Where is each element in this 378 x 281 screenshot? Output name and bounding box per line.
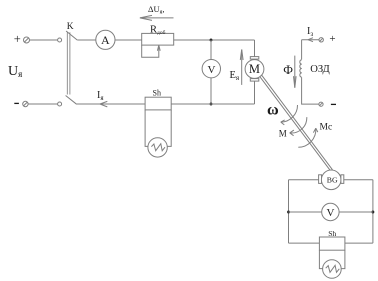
shaft motor to tachogenerator [260,75,333,171]
terminal - (armature supply negative) [23,101,28,106]
label - field [331,103,336,105]
svg-text:ОЗД: ОЗД [310,64,330,75]
millivoltmeter2 zigzag symbol [326,265,340,272]
wire rheostat to node A1 and motor [174,39,255,41]
wire - terminal to switch contact [28,103,57,105]
wire top rail down to motor brush [254,40,256,57]
wire field down to coil [301,40,303,60]
motor M top brush [250,57,258,60]
arc arrow M direction [290,117,307,136]
arc arrow ω direction [281,105,298,125]
wire shunt to M bottom [171,103,254,105]
rheostat wiper loop wire [142,45,159,57]
wire field top with I_з arrowhead [302,38,319,42]
voltmeter V tachometer [322,203,339,220]
node right V2 junction [371,211,374,214]
rheostat Rдоб body [142,33,174,45]
switch K bottom contact [58,102,62,106]
svg-text:V: V [327,207,335,219]
svg-text:+: + [329,33,335,45]
node bottom V junction [210,103,213,106]
shunt2 potential leads rectangle [319,250,345,268]
tachogenerator BG body [321,170,341,190]
millivoltmeter tachometer [323,260,342,279]
node top V junction [210,39,213,42]
shunt Sh armature box [145,97,171,110]
wire switch to ammeter [77,39,96,41]
field winding ОЗД coil [300,60,302,77]
ammeter A [96,30,115,49]
rheostat wiper arrowhead [157,45,160,51]
shunt Sh tachometer box [319,237,345,250]
svg-text:K: K [67,22,74,32]
wire bottom left to shunt2 [289,242,320,244]
terminal - field [319,102,323,106]
terminal + field [319,38,323,42]
wire + terminal to switch contact [30,39,58,41]
svg-text:ω: ω [267,102,279,119]
switch K bottom blade [66,96,77,105]
wire switch to I_я arrow to shunt [77,103,145,105]
wire shunt2 to bottom right [345,242,373,244]
svg-text:ΔUя,: ΔUя, [148,4,165,16]
tachogenerator BG right brush [341,175,344,184]
svg-text:Sh: Sh [153,89,161,98]
wire right rail vertical [372,180,374,243]
svg-text:A: A [101,33,110,47]
voltmeter V armature [202,59,220,77]
wire BG left to left rail [289,179,319,181]
switch K top contact [58,38,62,42]
wire coil to bottom field terminal [302,77,319,104]
terminal + (armature supply positive) [24,37,30,43]
svg-text:BG: BG [327,175,338,184]
millivoltmeter armature [148,138,167,157]
switch K top blade [66,31,77,40]
svg-text:Mc: Mc [320,123,333,133]
wire BG right to right rail [344,179,373,181]
wire motor bottom brush to bottom rail [254,81,256,104]
switch K coupling bar [67,32,70,94]
svg-text:Ф: Ф [283,63,293,77]
wire V2 branch horizontal [289,211,373,213]
svg-text:M: M [279,128,287,138]
label - [14,102,19,104]
shunt potential leads rectangle [145,110,171,146]
arrow E_я [240,50,243,85]
svg-text:M: M [249,62,260,76]
node left V2 junction [287,211,290,214]
wire left rail vertical [288,180,290,243]
svg-text:+: + [14,32,21,46]
svg-text:V: V [208,64,216,76]
millivoltmeter zigzag symbol [151,144,165,151]
wire ammeter to rheostat [115,39,142,41]
wire V branch vertical [210,40,212,104]
motor M bottom brush [250,79,258,82]
tachogenerator BG left brush [319,175,322,184]
arrowhead I_я [100,101,107,107]
arc arrow Mc direction [298,128,318,147]
motor M body [245,60,264,79]
svg-text:Sh: Sh [328,229,336,238]
arrow ΔU_я [140,15,174,20]
arrow Ф flux [294,56,297,88]
